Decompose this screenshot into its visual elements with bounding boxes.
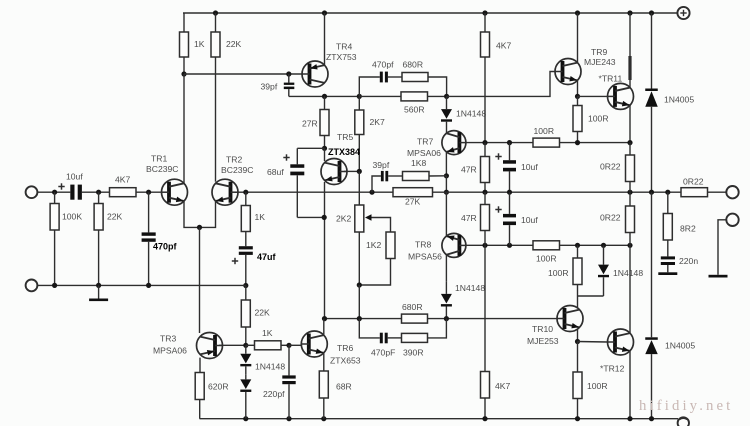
wire bottom negative rail [200,418,679,420]
wire TR9 collector to rail [577,13,579,63]
svg-text:BC239C: BC239C [221,165,253,175]
svg-text:MJE243: MJE243 [584,57,616,67]
svg-text:ZTX653: ZTX653 [330,356,361,366]
svg-text:MPSA06: MPSA06 [407,148,441,158]
wire TR2 collector column [215,57,217,182]
node TR7 base / 4K7 column / 47R [482,140,487,145]
wire top positive supply rail [183,12,677,14]
svg-text:10uf: 10uf [521,215,538,225]
diode 1N4148 (below TR8) [441,294,452,304]
svg-text:620R: 620R [208,382,229,392]
node bottom rail / 4K7 [482,416,487,421]
svg-text:1K2: 1K2 [366,240,382,250]
node top rail / 4K7 [482,10,487,15]
transistor TR9 MJE243 [555,59,581,85]
svg-text:TR3: TR3 [160,334,176,344]
svg-text:2K2: 2K2 [336,214,352,224]
node 0R22 lower / TR12 column [627,243,632,248]
wire to TR11 base [578,95,608,97]
wire TR12 emitter to rail [629,351,631,419]
transistor TR3 MPSA06 [197,333,223,359]
svg-text:39pf: 39pf [373,160,390,170]
svg-text:390R: 390R [403,348,424,358]
resistor 1K (TR6 base) [246,344,255,346]
wire TR7 emitter down [445,152,447,176]
svg-text:47R: 47R [461,213,477,223]
wire TR10 emitter [577,329,579,342]
node TR2 base / feedback [243,190,248,195]
node TR5 base / 2K7 / 2K2 [357,169,362,174]
transistor TR2 BC239C [212,179,238,205]
terminal output hot [726,186,738,198]
terminal V+ supply [677,7,689,19]
svg-text:ZTX753: ZTX753 [326,52,357,62]
node 10uf on rail [507,190,512,195]
wire lower comp branch [359,319,380,338]
node top rail / TR11 collector [627,10,632,15]
transistor TR8 MPSA56 [442,233,466,257]
svg-text:1N4005: 1N4005 [665,341,695,351]
capacitor 47uf (feedback) [245,232,247,247]
svg-text:100R: 100R [588,114,609,124]
transistor TR4 ZTX753 [302,61,328,87]
resistor 22K (feedback) [245,286,247,301]
node bottom rail / 100R [575,416,580,421]
svg-text:680R: 680R [402,302,423,312]
node 68uf bottom on emitter column [322,215,327,220]
resistor 100R (bottom) [577,342,579,373]
resistor 680R (lower, in line) [402,314,428,323]
svg-text:68uf: 68uf [267,167,284,177]
svg-text:4K7: 4K7 [495,381,511,391]
resistor 22K (input) [98,192,100,203]
wire output return to ground [718,220,726,275]
svg-text:1K: 1K [262,328,273,338]
svg-text:47R: 47R [461,165,477,175]
svg-text:470pF: 470pF [371,348,395,358]
terminal input return [26,280,38,292]
node 470pf bottom [146,283,151,288]
terminal V- supply [678,417,689,426]
node 10uf upper [507,140,512,145]
resistor 560R [359,95,401,97]
resistor 680R (upper) [402,73,428,82]
node 470pf tap [146,190,151,195]
node tail junction [197,225,202,230]
wire mid rail right part [433,191,682,193]
svg-text:27R: 27R [302,119,318,129]
wire 4K7 to TR1 base [136,191,162,193]
resistor 620R [199,358,201,373]
svg-text:4K7: 4K7 [496,41,512,51]
diode 1N4148 (above TR7) [441,109,452,119]
node 1N4148 lower [601,243,606,248]
node upper line / 2K7 / compensation branch [357,94,362,99]
capacitor 10uf (lower) [509,192,511,214]
wire 1K8 to emitter column [429,175,446,177]
wire to TR6 base [289,344,302,346]
wire TR6 collector [323,319,325,335]
svg-text:*TR12: *TR12 [600,364,625,374]
wire TR6 collector line [325,318,402,320]
resistor 100R (horizontal lower) [533,241,560,250]
svg-text:22K: 22K [226,39,242,49]
wire output mid rail [246,191,393,193]
wire down to TR6 collector line [358,285,360,319]
transistor TR12 output PNP [608,329,634,355]
resistor 0R22 (output, horizontal) [681,188,708,197]
node TR9 emitter / TR11 base / 100R [575,94,580,99]
wire driver base line lower y245 [466,244,533,246]
wire 390R to node [428,319,447,338]
node TR10 emitter / TR12 base / 100R [575,339,580,344]
node bottom rail / 220pf [286,416,291,421]
diode 1N4148 (bias upper) [240,354,251,364]
wire TR11 collector to rail (thick lead) [629,13,631,88]
wire input to 10uf [37,191,70,193]
svg-text:22K: 22K [107,212,123,222]
svg-text:2K7: 2K7 [370,117,386,127]
svg-text:220n: 220n [679,256,698,266]
svg-text:100R: 100R [534,126,555,136]
node bottom rail / 68R [321,416,326,421]
wire TR8 collector down [445,255,447,281]
node bottom rail / diodes [243,416,248,421]
node 1N4005 column on rail [649,190,654,195]
svg-text:47uf: 47uf [257,252,277,262]
svg-text:22K: 22K [255,308,271,318]
node TR5 emitter / TR6 collector [322,316,327,321]
diode 1N4148 (right lower) [598,265,609,275]
node top rail / TR9 collector [575,10,580,15]
capacitor 10uf (upper) [509,143,511,161]
wire TR8 emitter column [445,192,447,236]
node 2K2 / 1K2 join [357,282,362,287]
svg-text:100R: 100R [587,381,608,391]
resistor R 1K (top left) [183,13,185,32]
ground (output return) [709,275,728,278]
svg-text:4K7: 4K7 [115,175,131,185]
svg-text:*TR11: *TR11 [599,74,623,84]
wire driver base line upper y142 [466,142,533,144]
svg-text:68R: 68R [336,382,352,392]
svg-text:1K: 1K [255,212,266,222]
wire TR12 collector column [629,245,631,333]
wire TR4 emitter to rail [324,13,326,65]
wire 2K2 column crossing rail [358,171,360,205]
node TR4 collector / 27R [322,94,327,99]
node TR7 emitter / 1K8 branch [444,173,449,178]
resistor 4K7 (bottom) [481,372,490,399]
resistor 390R [388,337,402,339]
svg-text:100K: 100K [62,212,82,222]
transistor TR1 BC239C [162,179,188,205]
svg-text:39pf: 39pf [261,82,278,92]
resistor 4K7 (top) [484,13,486,32]
svg-text:470pf: 470pf [372,60,394,70]
terminal output return [726,214,738,226]
wire VAS upper line [325,95,360,97]
svg-text:1K: 1K [194,39,205,49]
svg-text:1N4148: 1N4148 [255,362,285,372]
wire TR3 base [219,344,246,346]
svg-text:100R: 100R [536,254,557,264]
resistor 27R [324,96,326,109]
svg-text:TR1: TR1 [151,154,167,164]
wire TR2 base to feedback node [235,191,246,193]
resistor 1K2 [386,232,395,259]
node TR3 base / 22K / 1K / diodes [243,343,248,348]
wire emitter column to output rail [445,176,447,192]
capacitor 39pf (feedback) [372,176,381,192]
node emitter column on output rail [444,190,449,195]
resistor 100K [54,192,56,203]
node 100R / TR9 100R [575,140,580,145]
svg-text:1N4148: 1N4148 [613,268,643,278]
svg-text:ZTX384: ZTX384 [328,147,360,157]
node 8R2 zobel on rail [665,190,670,195]
wire TR1 emitter [184,201,200,227]
diode 1N4148 (bias lower) [240,379,251,389]
wire TR2 emitter [200,201,216,227]
transistor TR5 ZTX384 [321,159,347,185]
wire 4K7 bottom column [484,245,486,371]
node input / 100K [52,190,57,195]
svg-text:680R: 680R [403,60,424,70]
svg-text:470pf: 470pf [153,242,178,252]
node 100R / TR10 column [575,243,580,248]
wire TR5 emitter to TR6 collector [324,182,326,319]
wire input ground line [37,284,245,286]
svg-text:TR5: TR5 [337,132,353,142]
wire to TR10 collector [577,296,579,309]
terminal input hot [26,186,38,198]
wire TR4 base line [184,73,302,75]
wire 680R to node B [428,77,447,96]
svg-text:1N4148: 1N4148 [456,109,486,119]
wire tail to TR3 collector [199,227,201,333]
svg-text:TR2: TR2 [226,155,242,165]
node top rail / TR4 emitter [322,10,327,15]
wire TR5 base to 2K7 column [344,170,359,172]
wire node B to TR9 base [447,72,555,97]
resistor 0R22 (lower) [629,192,631,206]
transistor TR7 MPSA06 [442,131,466,155]
wire compensation branch up [359,77,380,96]
svg-text:TR9: TR9 [591,47,607,57]
transistor TR6 ZTX653 [301,331,327,357]
svg-text:1N4148: 1N4148 [455,283,485,293]
node 47R on rail [482,190,487,195]
resistor 27K (feedback, in rail) [393,188,433,197]
wire to output terminal [708,191,727,193]
wire TR1 collector [183,74,185,183]
wire cap to 680R [388,76,402,78]
svg-text:TR4: TR4 [336,42,352,52]
svg-text:220pf: 220pf [263,389,285,399]
svg-text:10uf: 10uf [521,162,538,172]
wire TR5 collector [324,148,326,161]
node TR11 emitter / 0R22 [627,140,632,145]
wire 4K7 column down to TR7 base node [484,57,486,143]
resistor R 22K (top left) [215,13,217,32]
node 1K / TR1 collector / TR4 base [181,71,186,76]
node bottom rail / TR12 emitter [627,416,632,421]
node bottom rail / 1N4005 [649,416,654,421]
svg-text:1K8: 1K8 [411,158,427,168]
transistor TR11 output NPN [608,83,634,109]
ground (zobel) [658,272,677,275]
node top rail / 1N4005 [649,10,654,15]
svg-text:1N4005: 1N4005 [664,95,694,105]
capacitor 470pF (lower compensation) [380,333,383,344]
node TR8 base / 47R [482,243,487,248]
resistor 0R22 (upper) [629,143,631,155]
capacitor 68uf [296,148,298,164]
svg-text:0R22: 0R22 [600,213,621,223]
resistor 47R (lower) [484,192,486,204]
node 2K2 column / comp branch lower [357,316,362,321]
node diode / 390R branch / TR10 base line [444,316,449,321]
capacitor 10uf (input) [70,185,74,200]
svg-text:100R: 100R [548,268,569,278]
svg-text:TR8: TR8 [415,240,431,250]
resistor 2K7 [358,96,360,110]
resistor 1K8 [388,175,402,177]
node feedback 39pf tap [369,190,374,195]
svg-text:MPSA06: MPSA06 [153,346,187,356]
capacitor 470pf (upper compensation) [380,72,383,83]
node 27R / TR5 collector / 68uF [322,146,327,151]
wire 1K2 bottom jog [359,259,390,286]
resistor 47R (upper) [484,143,486,157]
node 22K bottom / ground [96,283,101,288]
svg-text:MPSA56: MPSA56 [408,252,442,262]
resistor 8R2 zobel [667,192,669,213]
node 220pf tap [286,343,291,348]
resistor 100R (horizontal upper) [533,138,560,147]
svg-text:MJE253: MJE253 [527,336,559,346]
resistor 100R (TR10 collector) [577,245,579,258]
wire jog 100R-diode bottoms [578,295,604,297]
svg-text:8R2: 8R2 [680,224,696,234]
wiper arrow 2K2 [365,214,372,220]
capacitor 470pf (input) [148,192,150,232]
svg-text:TR10: TR10 [532,324,553,334]
capacitor 220pf [288,345,290,375]
wire 2K2 bottom [358,232,360,285]
svg-text:TR6: TR6 [337,343,353,353]
svg-text:TR7: TR7 [417,137,433,147]
svg-text:0R22: 0R22 [600,162,621,172]
node 22K input [96,190,101,195]
wire TR11 emitter [629,105,631,143]
node ground line end / 22K fb [243,283,248,288]
node B 560R / diode / TR9 base line [444,94,449,99]
svg-text:27K: 27K [405,197,421,207]
wire 10uf to 4K7 [82,191,110,193]
node 0R22 junction on rail [627,190,632,195]
capacitor 39pf (TR4 base-collector) [286,71,291,76]
wire TR9 emitter [577,80,579,96]
transistor TR10 MJE253 [557,306,583,332]
node 10uf lower [507,243,512,248]
svg-text:hifidiy.net: hifidiy.net [639,398,733,414]
diode 1N4005 (top clamp) [651,13,653,89]
node top rail / 22K [213,10,218,15]
wire TR12 base [578,341,608,344]
svg-text:BC239C: BC239C [146,164,178,174]
svg-text:0R22: 0R22 [683,177,704,187]
svg-text:10uf: 10uf [66,172,83,182]
resistor 1K (feedback) [245,192,247,205]
ground (input) [98,285,100,298]
capacitor 220n zobel [667,240,669,256]
svg-text:560R: 560R [404,105,425,115]
potentiometer 2K2 [355,205,364,232]
node 100K bottom [52,283,57,288]
resistor 4K7 (input, horizontal) [110,188,137,197]
diode 1N4005 (bottom clamp) [651,192,653,337]
resistor 68R [323,353,325,371]
resistor 100R (TR9 emitter) [577,96,579,105]
